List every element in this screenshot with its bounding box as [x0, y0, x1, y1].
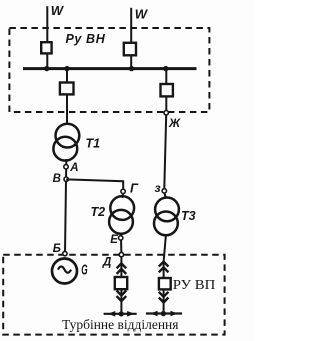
- svg-text:G: G: [81, 262, 87, 278]
- svg-text:Т1: Т1: [86, 137, 101, 151]
- feeder bar with arrows (left unit): [104, 313, 137, 315]
- transformer T1: [56, 124, 80, 148]
- node Ж: [164, 111, 168, 115]
- svg-text:Г: Г: [130, 181, 139, 196]
- withdrawable contacts (upper, left unit): [117, 263, 127, 268]
- wire T3 down to РУ ВП unit: [164, 236, 166, 313]
- junction W2/busbar: [129, 66, 134, 71]
- svg-text:Е: Е: [110, 234, 118, 246]
- breaker Q1 in line W1: [41, 42, 51, 53]
- svg-text:Турбінне відділення: Турбінне відділення: [62, 317, 179, 332]
- node Б: [63, 251, 67, 255]
- wire T1 to node Б: [65, 159, 66, 254]
- node В: [64, 177, 68, 181]
- dashed enclosure Турбінне відділення: [3, 255, 224, 335]
- wire incoming line W2 (right feeder): [130, 8, 132, 68]
- svg-text:Ру ВН: Ру ВН: [66, 32, 106, 46]
- transformer T2: [110, 196, 134, 220]
- wire T2 to node Д: [120, 234, 123, 254]
- wire incoming line W1 (left feeder): [46, 6, 48, 68]
- wire busbar to node Ж: [165, 69, 167, 111]
- breaker Q2 in line W2: [124, 43, 136, 56]
- generator G: [52, 259, 77, 284]
- breaker Q4 (T3 feeder): [161, 84, 173, 96]
- svg-text:W: W: [51, 3, 65, 18]
- svg-text:РУ ВП: РУ ВП: [173, 278, 216, 293]
- withdrawable contacts (upper, right unit): [159, 262, 169, 267]
- node з: [162, 189, 166, 193]
- dashed enclosure РУ ВН: [9, 28, 209, 112]
- wire busbar to T1: [66, 69, 68, 123]
- breaker Q3 (T1 feeder): [60, 83, 74, 95]
- transformer T3: [155, 198, 179, 222]
- node Д: [119, 252, 123, 256]
- svg-text:з: з: [155, 181, 161, 195]
- junction T3 feeder/busbar: [163, 66, 168, 71]
- svg-text:Д: Д: [102, 257, 111, 269]
- busbar РУ ВН: [23, 67, 197, 70]
- wire node Д down to feeder bar: [120, 257, 122, 314]
- breaker Q6 (withdrawable, right unit): [159, 278, 171, 289]
- node А: [64, 165, 68, 169]
- wire node Ж to node з: [164, 115, 166, 188]
- svg-text:W: W: [135, 6, 149, 21]
- wire node В to node Г: [66, 179, 123, 188]
- svg-text:Т3: Т3: [181, 209, 196, 223]
- withdrawable contacts (lower, left unit): [117, 291, 127, 296]
- withdrawable contacts (lower, right unit): [159, 292, 169, 297]
- junction T1 feeder/busbar: [64, 66, 69, 71]
- junction W1/busbar: [44, 66, 49, 71]
- node Е: [119, 236, 123, 240]
- wire node Г to T2: [121, 194, 124, 198]
- feeder bar with arrows (right unit): [146, 312, 182, 314]
- svg-text:А: А: [69, 162, 78, 174]
- breaker Q5 (withdrawable, left unit): [115, 277, 127, 289]
- node Г: [121, 189, 125, 193]
- svg-text:В: В: [53, 173, 61, 185]
- svg-text:Ж: Ж: [168, 116, 181, 130]
- svg-text:Т2: Т2: [91, 205, 106, 219]
- svg-text:Б: Б: [53, 243, 61, 255]
